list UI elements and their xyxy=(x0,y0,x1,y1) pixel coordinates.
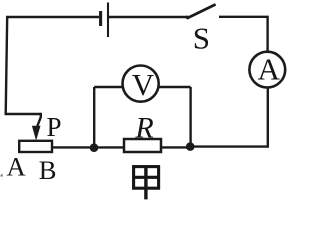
svg-text:R: R xyxy=(134,111,153,144)
svg-text:B: B xyxy=(39,155,57,185)
svg-text:A: A xyxy=(6,152,26,182)
svg-text:P: P xyxy=(46,112,61,142)
wire: node N1 to resistor R xyxy=(94,146,124,148)
switch S pivot nub xyxy=(186,16,189,19)
battery G1 short plate (negative) xyxy=(99,11,102,26)
wire: battery negative to top-left corner, down left side, to slider xyxy=(6,17,99,114)
battery G1 long plate (positive) xyxy=(107,3,109,38)
voltmeter V1 circle xyxy=(123,66,159,102)
ammeter A1 circle xyxy=(249,52,285,88)
wire: voltmeter left horizontal xyxy=(94,86,122,88)
rheostat RP track box xyxy=(19,141,52,152)
wire: voltmeter right horizontal xyxy=(159,86,191,88)
wire: voltmeter right branch vertical xyxy=(189,87,191,146)
wire: resistor R to node N2 xyxy=(161,146,190,148)
caption 甲 (jiǎ) drawn strokes xyxy=(134,166,159,199)
switch S blade xyxy=(187,4,216,18)
wire: switch to top-right corner down to ammeter xyxy=(219,17,268,52)
svg-text:A: A xyxy=(258,51,281,86)
node N1 junction dot xyxy=(90,143,99,152)
wire: battery positive to switch xyxy=(109,16,187,18)
rheostat slider arrowhead xyxy=(32,126,41,141)
wire: voltmeter left branch vertical xyxy=(93,87,95,148)
rheostat slider arrow stem xyxy=(37,113,41,128)
wire: ammeter down right side and left to node N2 xyxy=(190,88,268,147)
resistor R box xyxy=(124,139,161,152)
node N2 junction dot xyxy=(186,142,195,151)
scan smudge left edge xyxy=(0,173,3,176)
svg-text:V: V xyxy=(132,67,155,102)
svg-text:S: S xyxy=(193,21,210,56)
wire: rheostat B terminal to node N1 xyxy=(52,146,94,148)
